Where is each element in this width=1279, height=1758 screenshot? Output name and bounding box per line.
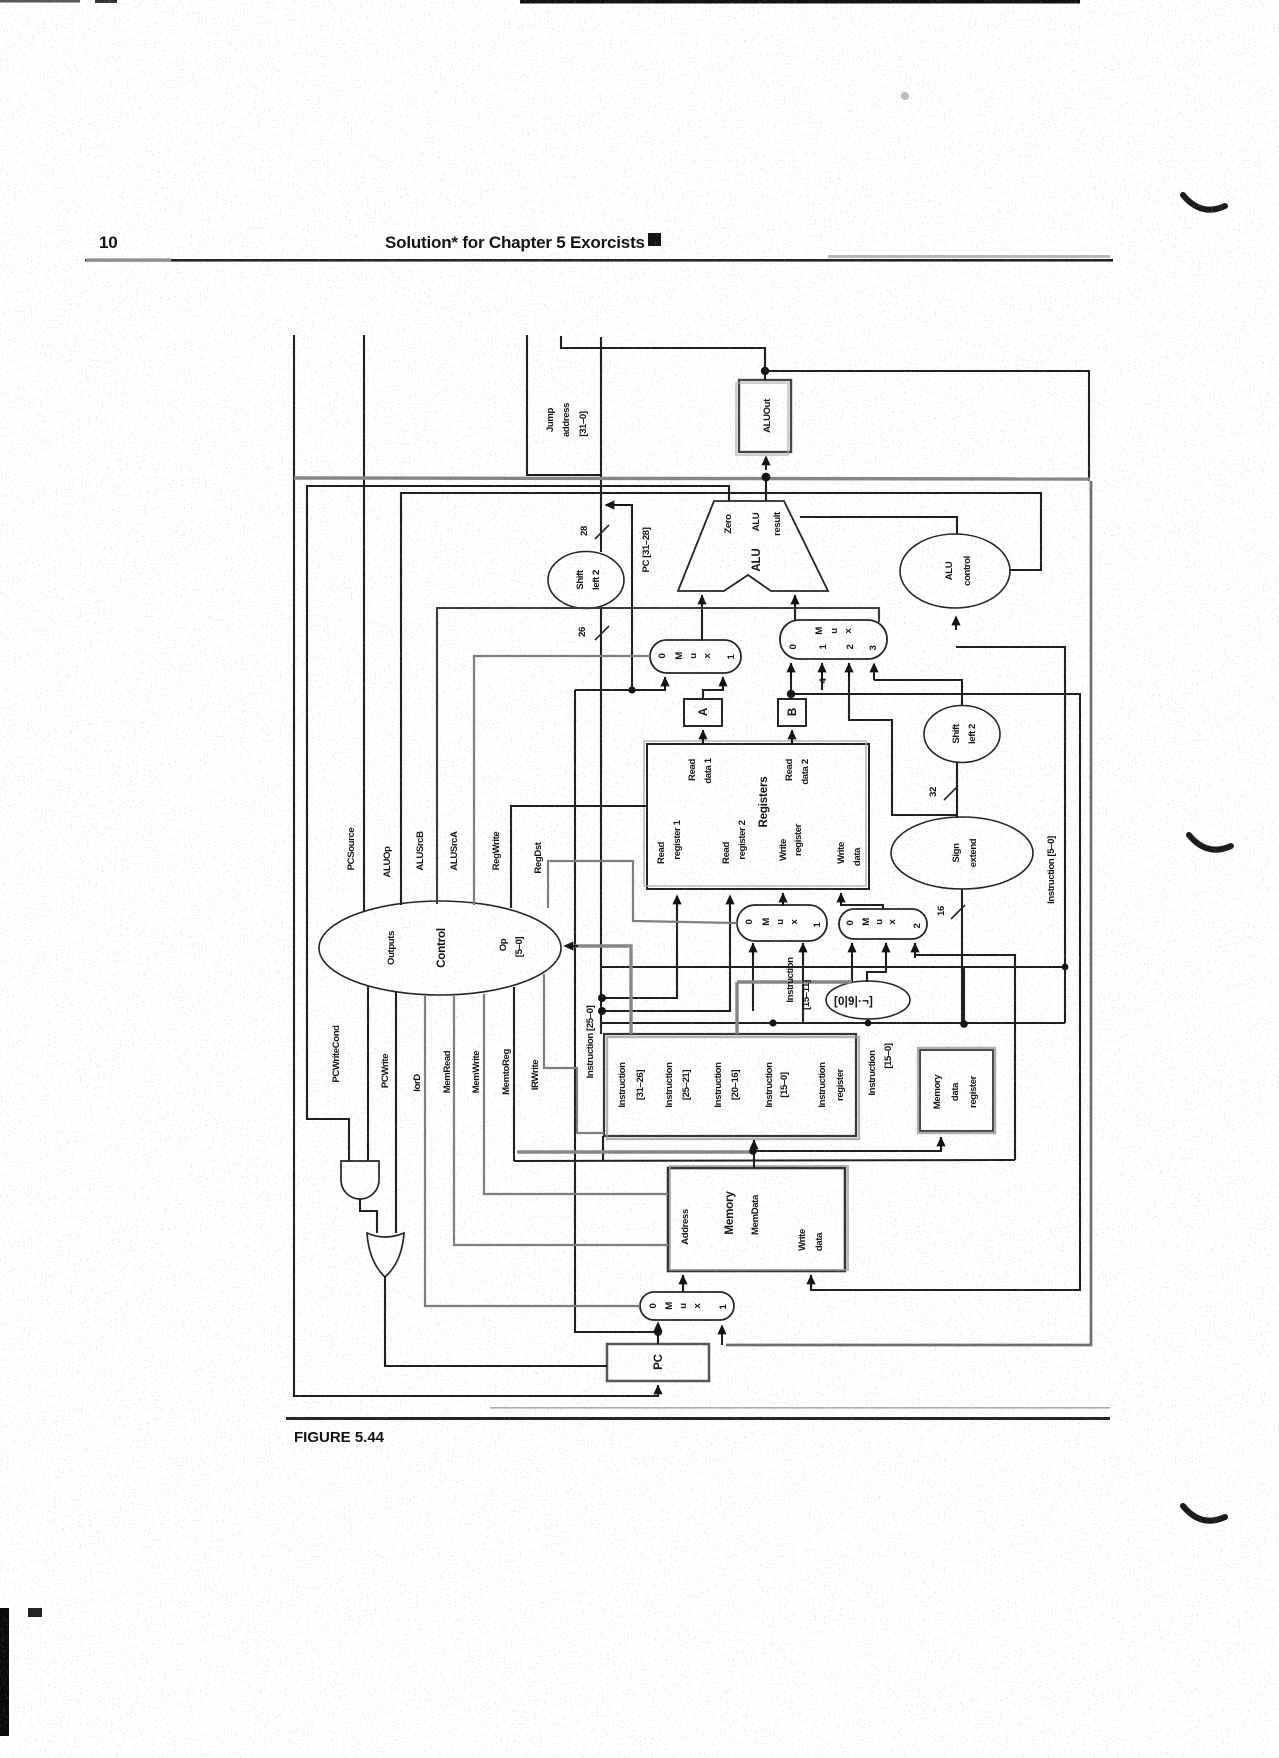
wire: ALUOp control line to ALU control (401, 493, 1041, 905)
arrow: into RegDst mux input0 (752, 944, 754, 956)
wire: B output to ALUSrcB input0 (790, 663, 792, 699)
wire: IR 25-21 line to read register 1 (601, 905, 677, 998)
ALUSrcB mux (4 input) (780, 620, 887, 659)
wire: jump address vertical into Shift-left-2 (600, 337, 602, 552)
MemtoReg mux (3 input) (839, 909, 927, 939)
wire: ALUSrcB select line (437, 608, 879, 904)
arrow: into ALU bottom input (794, 596, 796, 608)
OR gate (367, 1233, 404, 1277)
Memory data register box (918, 1048, 995, 1133)
arrowheads (565, 457, 956, 1396)
wire: PC output stub (657, 1324, 659, 1344)
junction: instruction 20-16 tap (598, 1007, 606, 1015)
wire: shift-left-2 jump output below (600, 608, 602, 1034)
wire: Zero output line to AND gate (307, 486, 729, 1161)
arrow: into write data (840, 894, 842, 906)
wire: PC bus top run to ALUSrcA input0 (575, 677, 665, 690)
RegDst mux (737, 905, 827, 941)
wire: RegWrite control into registers (511, 806, 647, 908)
wire: PC 31-28 tap (612, 505, 632, 690)
wire: Op field gray line into control (575, 946, 631, 1034)
junction: B output node (787, 690, 795, 698)
wire: MemRead control into memory (454, 996, 668, 1245)
arrow: into read register 2 (729, 896, 731, 910)
wire: constant 4 stub (821, 663, 823, 690)
Sign extend ellipse (891, 817, 1033, 889)
wire: IRWrite control into IR (544, 974, 604, 1133)
junction: ALUOut output node (761, 367, 769, 375)
ALUSrcA mux (650, 640, 741, 673)
arrow: op field into control oval (565, 945, 578, 947)
IorD mux (640, 1292, 734, 1320)
wire: ALUSrcA mux output to ALU (701, 595, 703, 640)
wire: PCWrite control drop to OR (395, 992, 397, 1233)
wire: PC+4 gray line across figure (294, 478, 1090, 479)
arrow: into memory write data (810, 1276, 812, 1288)
wire: RegDst mux output to write register (782, 893, 784, 905)
wire: MemtoReg mux input0 drop (851, 943, 853, 982)
Shift left 2 (branch) ellipse (924, 706, 1000, 763)
wire: lui ellipse top elbow to mux input1 (867, 943, 886, 982)
slash 32 (944, 786, 958, 800)
wire: MDR output riser to mux (915, 943, 1015, 1160)
wire: read data 1 to A (702, 730, 704, 744)
arrow: into ALU control bottom (955, 617, 957, 630)
arrow: into ALUSrcB input1 (821, 664, 823, 678)
Shift left 2 (jump) ellipse (548, 552, 624, 609)
wire: RegDst mux input1 from instruction 15-11 (802, 943, 804, 1023)
wire: ALU control output into ALU (800, 517, 957, 534)
arrow: into IorD mux input0 (657, 1323, 659, 1332)
wire: IR bottom corner stub (602, 1136, 604, 1161)
arrow: into ALUSrcA mux input0 (664, 678, 666, 690)
wire: ALUOut feed stub (764, 371, 766, 380)
arrow: into read register 1 (676, 896, 678, 910)
wire: lui ellipse bottom stub (867, 1019, 869, 1023)
wire: gray line under RegDst mux (737, 980, 852, 983)
wire: MemtoReg mux input2 riser (963, 967, 965, 1024)
wire: ALU result to ALUOut (765, 477, 767, 501)
B register (778, 699, 806, 726)
wire: AND gate output jog to OR gate (360, 1199, 377, 1233)
wire: memory MemData up to IR (753, 1140, 755, 1168)
wire: black line under IR (514, 1160, 1015, 1161)
junction: MemData node (749, 1147, 757, 1155)
junction: instruction 25-21 tap (598, 994, 606, 1002)
A register (684, 699, 722, 726)
arrow: into IorD mux input1 (721, 1326, 723, 1345)
arrow: jump concat arrow (606, 504, 632, 506)
arrow: into ALUSrcB input3 (873, 664, 875, 680)
wire: MemtoReg control drop (513, 987, 515, 1161)
junction: lui ellipse tap (865, 1020, 872, 1027)
arrow: into RegDst mux input1 (802, 944, 804, 956)
ALU control ellipse (900, 534, 1010, 608)
wire: RegDst select line (548, 861, 737, 923)
wire: B output branch to memory write data (791, 694, 1080, 1290)
wire: gray drop to IR top (735, 982, 738, 1034)
AND gate (341, 1161, 379, 1199)
wire: PC bus riser (575, 690, 658, 1332)
wire: instruction 15-0 bus line C (601, 1022, 1065, 1024)
wire: ALUSrcB mux input2 from sign extend (849, 663, 957, 815)
arrow: into PC bottom (657, 1386, 659, 1396)
slash 26 (595, 626, 609, 640)
wire: ALUSrcA select line (474, 656, 650, 905)
Registers box (644, 741, 869, 889)
figure caption (286, 1417, 1110, 1420)
arrow: into B register (791, 731, 793, 744)
Memory box (668, 1166, 848, 1271)
wire: ALUOut output to right edge (765, 371, 1089, 481)
wire: RegDst mux input0 tap (752, 943, 754, 1011)
wire: branch shift output elbow to mux input 3 (874, 680, 962, 706)
arrow: into ALU top input (701, 596, 703, 608)
wire: A register output elbow (703, 677, 723, 699)
wire: MemWrite control into memory (484, 994, 668, 1194)
wire: sign extend input tap (961, 889, 963, 1023)
junction: instruction 15-11 tap (769, 1019, 776, 1026)
slash 28 (595, 525, 609, 539)
arrow: into MDR (940, 1138, 942, 1150)
wire: MemtoReg gray segment (517, 1150, 754, 1153)
gray heavy wires (294, 478, 1090, 1152)
slash 16 (951, 905, 965, 919)
PC register (607, 1344, 709, 1381)
wire: IorD select line (425, 996, 640, 1306)
ALUOut register (736, 380, 791, 455)
wire: right edge vertical gray segment (726, 481, 1091, 1345)
wire: MemData line to MDR (754, 1137, 941, 1151)
junction: ALU result node (762, 473, 771, 482)
arrow: into ALUSrcB input0 (790, 664, 792, 678)
wire: IorD mux output to memory address (682, 1275, 684, 1292)
wire: ALUOut output top elbow (561, 336, 765, 371)
arrow: into memory address (682, 1276, 684, 1288)
junction: mux input2 tap (960, 1020, 968, 1028)
arrow: into MemtoReg mux input0 (851, 944, 853, 958)
junction: PC output node (654, 1328, 662, 1336)
bus slashes and width labels (595, 525, 965, 919)
wire: MemtoReg mux output elbow to write data (841, 893, 883, 909)
arrow: ALU result into ALUOut (765, 457, 767, 470)
arrow: into A register (702, 731, 704, 744)
wire: PCWriteCond control drop to AND (367, 986, 369, 1161)
Instruction register box (604, 1034, 859, 1139)
wire: ALU control input from Instruction 5-0 (956, 647, 1065, 1023)
wire: left dangling verticals at figure top (293, 335, 295, 478)
arrow: into MemtoReg mux input1 (885, 944, 887, 958)
Control oval (319, 901, 561, 995)
arrow: into ALUSrcB input2 (848, 664, 850, 678)
lui constant ellipse (826, 981, 910, 1019)
wire: OR gate output to PC write enable (385, 1277, 607, 1366)
ALU (678, 501, 828, 591)
arrow: into write register (782, 894, 784, 906)
arrow: into MemtoReg mux input2 (914, 944, 916, 958)
arrow: into ALUSrcA mux input1 (722, 678, 724, 690)
arrow: MemData into IR (753, 1141, 755, 1155)
scanner artifacts (520, 0, 1080, 4)
wire: PC input line at bottom (294, 478, 658, 1396)
wire: sign extend output to shift left 2 branch (956, 763, 958, 818)
wire: read data 2 to B (791, 730, 793, 744)
junction: right bus corner (1062, 964, 1069, 971)
wire: ALUSrcB mux output to ALU (794, 595, 796, 620)
junction: PC bus tap for PC 31-28 (628, 686, 635, 693)
wire: IR 20-16 line to read register 2 (601, 905, 730, 1011)
wire: instruction 15-0 bus upper line (601, 966, 1065, 968)
wire: PCSource control line (527, 335, 601, 475)
